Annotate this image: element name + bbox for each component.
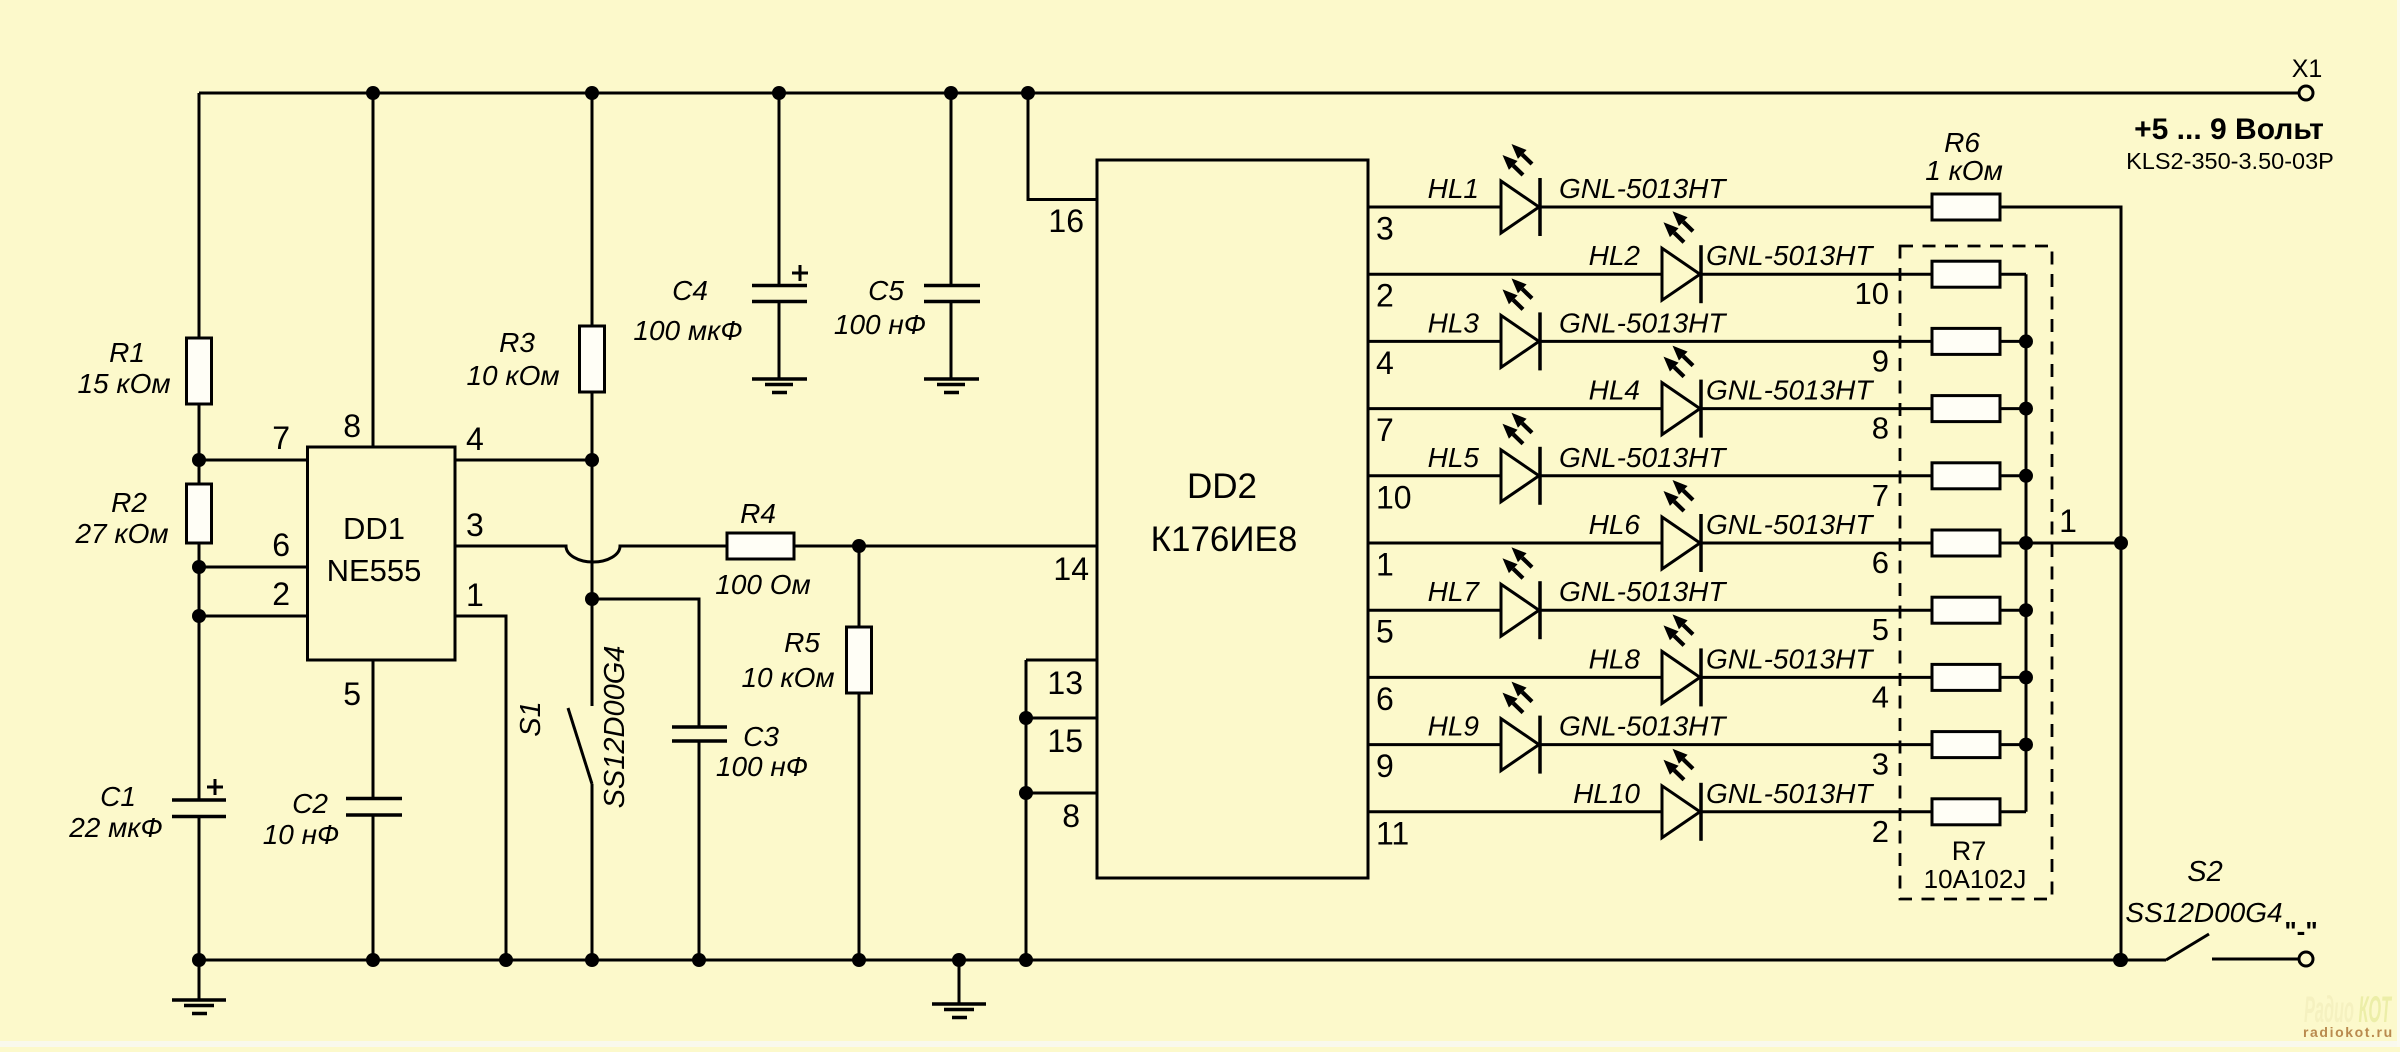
wire R7 element 7 to common xyxy=(2000,676,2026,679)
svg-text:9: 9 xyxy=(1376,748,1394,784)
resistor R7 element 5 xyxy=(1932,530,2000,556)
wire R7 element 9 to common xyxy=(2000,810,2026,813)
wire R5 to bottom bus xyxy=(858,693,861,960)
wire HL1 cathode to resistor xyxy=(1540,206,1932,209)
wire DD1 pin8 to top bus xyxy=(372,93,375,447)
svg-text:S2: S2 xyxy=(2187,856,2222,888)
ground symbol bottom-left xyxy=(198,960,201,1000)
wire DD2 pin13 xyxy=(1026,659,1097,662)
svg-text:DD1: DD1 xyxy=(343,511,405,546)
wire R7 element 6 to common xyxy=(2000,609,2026,612)
wire DD2 pin16 to top bus xyxy=(1028,93,1097,200)
wire C3 to bottom bus xyxy=(698,741,701,960)
wire C5 to ground xyxy=(950,302,953,380)
resistor R2 xyxy=(187,484,212,543)
wire R2 to C1 xyxy=(198,543,201,800)
resistor R7 element 3 xyxy=(1932,396,2000,422)
node R5 ground junction xyxy=(852,953,866,967)
svg-text:10: 10 xyxy=(1376,479,1412,515)
terminal X1 minus xyxy=(2299,952,2313,966)
wire DD2 pin 3 to HL1 xyxy=(1368,206,1501,209)
svg-text:100 Ом: 100 Ом xyxy=(715,569,810,600)
svg-text:2: 2 xyxy=(1872,814,1889,849)
node R3 top bus junction xyxy=(585,86,599,100)
wire DD1 pin7 xyxy=(199,459,308,462)
wire DD1 pin2 xyxy=(199,615,308,618)
svg-text:10 кОм: 10 кОм xyxy=(741,662,834,693)
svg-text:GNL-5013HT: GNL-5013HT xyxy=(1559,307,1727,338)
svg-text:GNL-5013HT: GNL-5013HT xyxy=(1706,643,1874,674)
svg-text:HL3: HL3 xyxy=(1428,307,1480,338)
svg-text:KLS2-350-3.50-03P: KLS2-350-3.50-03P xyxy=(2126,148,2334,174)
capacitor C2 plates xyxy=(346,797,402,801)
svg-text:HL7: HL7 xyxy=(1428,576,1481,607)
wire R1 to R2 xyxy=(198,404,201,484)
node S2 junction xyxy=(2113,953,2127,967)
node pin7 junction xyxy=(192,453,206,467)
node pin15 junction xyxy=(1019,711,1033,725)
node pin1 ground junction xyxy=(499,953,513,967)
wire R7 element 1 to common xyxy=(2000,273,2026,276)
svg-text:15: 15 xyxy=(1047,723,1083,759)
node pin16 top bus junction xyxy=(1021,86,1035,100)
node R7 common junction row 4 xyxy=(2019,402,2033,416)
resistor R7 element 1 xyxy=(1932,261,2000,287)
wire DD1 pin5 down xyxy=(372,660,375,799)
wire HL2 cathode to resistor xyxy=(1701,273,1932,276)
wire C2 to bottom bus xyxy=(372,815,375,960)
wire DD1 pin4 xyxy=(455,459,592,462)
switch S1 blade xyxy=(568,708,592,784)
node R7 common junction row 7 xyxy=(2019,603,2033,617)
right edge strip xyxy=(2397,0,2400,1047)
svg-text:16: 16 xyxy=(1048,203,1084,239)
svg-text:1: 1 xyxy=(1376,547,1394,583)
svg-text:8: 8 xyxy=(343,408,361,444)
node C3 ground junction xyxy=(692,953,706,967)
svg-text:HL4: HL4 xyxy=(1589,375,1640,406)
wire C4 to ground xyxy=(778,302,781,380)
wire R6 to right rail xyxy=(2000,207,2121,960)
svg-text:2: 2 xyxy=(272,576,290,612)
capacitor C4 plates xyxy=(752,284,807,288)
wire DD2 pin 5 to HL7 xyxy=(1368,609,1501,612)
svg-text:4: 4 xyxy=(1376,345,1394,381)
svg-text:"-": "-" xyxy=(2284,916,2317,946)
svg-text:R2: R2 xyxy=(111,487,147,518)
node R4/R5 junction xyxy=(852,539,866,553)
wire HL8 cathode to resistor xyxy=(1701,676,1932,679)
svg-text:3: 3 xyxy=(466,507,484,543)
svg-text:5: 5 xyxy=(343,676,361,712)
node R7 pin1 rail junction xyxy=(2114,536,2128,550)
svg-text:GNL-5013HT: GNL-5013HT xyxy=(1706,240,1874,271)
wire DD1 pin6 xyxy=(199,566,308,569)
svg-text:SS12D00G4: SS12D00G4 xyxy=(2125,897,2282,928)
wire pins 13-15-8 to bottom bus xyxy=(1025,660,1028,960)
svg-text:HL5: HL5 xyxy=(1428,442,1480,473)
LED HL9 xyxy=(1501,719,1539,771)
svg-text:R6: R6 xyxy=(1944,127,1980,158)
svg-text:6: 6 xyxy=(1376,681,1394,717)
svg-text:R3: R3 xyxy=(499,327,535,358)
svg-text:R7: R7 xyxy=(1952,836,1987,866)
svg-text:S1: S1 xyxy=(515,701,547,736)
wire DD2 pin 11 to HL10 xyxy=(1368,810,1662,813)
svg-text:100 нФ: 100 нФ xyxy=(716,751,808,782)
svg-text:10A102J: 10A102J xyxy=(1924,864,2027,894)
LED HL7 xyxy=(1501,584,1539,636)
svg-text:10: 10 xyxy=(1855,276,1889,311)
wire R3 to S1 node xyxy=(591,392,594,599)
LED HL6 xyxy=(1662,517,1700,569)
svg-text:10 кОм: 10 кОм xyxy=(466,360,559,391)
resistor R6 xyxy=(1932,194,2000,220)
wire DD2 pin 2 to HL2 xyxy=(1368,273,1662,276)
node C2 ground junction xyxy=(366,953,380,967)
svg-text:5: 5 xyxy=(1872,612,1889,647)
svg-text:C1: C1 xyxy=(100,781,136,812)
wire DD2 pin 1 to HL6 xyxy=(1368,542,1662,545)
svg-text:GNL-5013HT: GNL-5013HT xyxy=(1559,711,1727,742)
node C1 ground junction xyxy=(192,953,206,967)
svg-text:15 кОм: 15 кОм xyxy=(77,368,170,399)
ground symbol under C5 xyxy=(924,377,979,381)
svg-text:27 кОм: 27 кОм xyxy=(74,518,168,549)
svg-text:X1: X1 xyxy=(2292,55,2323,83)
svg-text:9: 9 xyxy=(1872,343,1889,378)
svg-text:HL6: HL6 xyxy=(1589,509,1641,540)
svg-text:+5 ... 9 Вольт: +5 ... 9 Вольт xyxy=(2134,113,2324,146)
svg-text:8: 8 xyxy=(1872,411,1889,446)
wire R5 top lead xyxy=(858,546,861,627)
node C4 top bus junction xyxy=(772,86,786,100)
resistor R7 element 2 xyxy=(1932,328,2000,354)
wire HL7 cathode to resistor xyxy=(1540,609,1932,612)
node mid ground junction xyxy=(952,953,966,967)
svg-text:R5: R5 xyxy=(784,627,820,658)
resistor R7 element 4 xyxy=(1932,463,2000,489)
wire HL3 cathode to resistor xyxy=(1540,340,1932,343)
wire C1 to bottom bus xyxy=(198,817,201,961)
LED HL4 xyxy=(1662,383,1700,435)
resistor R7 element 9 xyxy=(1932,799,2000,825)
node S1 ground junction xyxy=(585,953,599,967)
wire HL9 cathode to resistor xyxy=(1540,743,1932,746)
wire DD2 pin 6 to HL8 xyxy=(1368,676,1662,679)
wire HL10 cathode to resistor xyxy=(1701,810,1932,813)
svg-text:SS12D00G4: SS12D00G4 xyxy=(599,646,631,809)
LED HL10 xyxy=(1662,786,1700,838)
resistor R3 xyxy=(580,326,605,392)
label C1 polarity + xyxy=(207,786,223,789)
wire C4 from top bus xyxy=(778,93,781,286)
svg-text:1: 1 xyxy=(466,577,484,613)
node S1/C3 junction xyxy=(585,592,599,606)
node R7 common junction row 6 xyxy=(2019,536,2033,550)
wire HL4 cathode to resistor xyxy=(1701,407,1932,410)
svg-text:2: 2 xyxy=(1376,278,1394,314)
wire R7 element 4 to common xyxy=(2000,474,2026,477)
node pin6 junction xyxy=(192,560,206,574)
counter DD2 box xyxy=(1097,160,1368,878)
svg-text:GNL-5013HT: GNL-5013HT xyxy=(1706,509,1874,540)
wire R3 from top bus xyxy=(591,93,594,326)
svg-text:8: 8 xyxy=(1062,798,1080,834)
svg-text:C4: C4 xyxy=(672,275,708,306)
node R7 common junction row 3 xyxy=(2019,334,2033,348)
node pin8 junction xyxy=(1019,786,1033,800)
svg-text:5: 5 xyxy=(1376,614,1394,650)
wire left rail segment (top bus to R1) xyxy=(198,93,201,338)
capacitor C1 plates xyxy=(172,798,226,802)
label C4 polarity + xyxy=(792,272,808,275)
wire DD2 pin 10 to HL5 xyxy=(1368,474,1501,477)
LED HL8 xyxy=(1662,651,1700,703)
resistor R1 xyxy=(187,338,212,404)
node R7 common junction row 8 xyxy=(2019,670,2033,684)
wire +V top bus xyxy=(199,92,2299,95)
wire DD2 pin8 xyxy=(1026,792,1097,795)
node R7 common junction row 5 xyxy=(2019,469,2033,483)
node DD2 ground junction xyxy=(1019,953,1033,967)
resistor R7 element 7 xyxy=(1932,664,2000,690)
svg-text:22 мкФ: 22 мкФ xyxy=(68,812,163,843)
svg-text:R4: R4 xyxy=(740,498,776,529)
capacitor C5 plates xyxy=(924,284,980,288)
svg-text:HL1: HL1 xyxy=(1428,173,1479,204)
switch S1 bottom lead xyxy=(591,784,594,960)
wire R7 element 8 to common xyxy=(2000,743,2026,746)
resistor network R7 dashed outline xyxy=(1900,246,2052,899)
svg-text:GNL-5013HT: GNL-5013HT xyxy=(1706,375,1874,406)
svg-text:К176ИЕ8: К176ИЕ8 xyxy=(1151,520,1298,559)
svg-text:radiokot.ru: radiokot.ru xyxy=(2303,1024,2394,1040)
resistor R7 element 8 xyxy=(1932,732,2000,758)
svg-text:HL9: HL9 xyxy=(1428,711,1479,742)
wire S1 node to C3 xyxy=(592,599,699,727)
svg-text:10 нФ: 10 нФ xyxy=(263,819,340,850)
svg-text:C5: C5 xyxy=(868,275,904,306)
wire HL6 cathode to resistor xyxy=(1701,542,1932,545)
wire DD1 pin3 with hop over R3 line xyxy=(455,546,727,562)
resistor R7 element 6 xyxy=(1932,597,2000,623)
svg-text:7: 7 xyxy=(272,420,290,456)
op-amp/timer DD1 box xyxy=(308,447,456,660)
node pin8 top bus junction xyxy=(366,86,380,100)
svg-text:100 нФ: 100 нФ xyxy=(834,309,926,340)
wire R7 pin1 to right rail xyxy=(2026,542,2121,545)
svg-text:GNL-5013HT: GNL-5013HT xyxy=(1706,778,1874,809)
node R7 common junction row 9 xyxy=(2019,738,2033,752)
LED HL3 xyxy=(1501,315,1539,367)
wire C5 from top bus xyxy=(950,93,953,286)
LED HL2 xyxy=(1662,248,1700,300)
resistor R4 xyxy=(727,533,794,559)
svg-text:HL2: HL2 xyxy=(1589,240,1641,271)
svg-text:1: 1 xyxy=(2059,503,2077,539)
svg-text:GNL-5013HT: GNL-5013HT xyxy=(1559,576,1727,607)
svg-text:3: 3 xyxy=(1872,747,1889,782)
wire DD2 pin15 xyxy=(1026,717,1097,720)
svg-text:11: 11 xyxy=(1376,815,1409,851)
node C5 top bus junction xyxy=(944,86,958,100)
svg-text:4: 4 xyxy=(1872,679,1889,714)
wire DD2 pin 4 to HL3 xyxy=(1368,340,1501,343)
bottom edge strip xyxy=(0,1041,2400,1047)
svg-text:R1: R1 xyxy=(109,337,145,368)
capacitor C3 plates xyxy=(672,725,727,729)
svg-text:HL8: HL8 xyxy=(1589,643,1641,674)
svg-text:GNL-5013HT: GNL-5013HT xyxy=(1559,442,1727,473)
terminal X1 plus xyxy=(2299,86,2313,100)
switch S1 top lead xyxy=(591,599,594,706)
wire HL5 cathode to resistor xyxy=(1540,474,1932,477)
svg-text:6: 6 xyxy=(1872,545,1889,580)
svg-text:HL10: HL10 xyxy=(1573,778,1640,809)
svg-text:4: 4 xyxy=(466,421,484,457)
wire R7 element 5 to common xyxy=(2000,542,2026,545)
svg-text:100 мкФ: 100 мкФ xyxy=(633,315,742,346)
svg-text:3: 3 xyxy=(1376,211,1394,247)
svg-text:C2: C2 xyxy=(292,788,328,819)
LED HL1 xyxy=(1501,181,1539,233)
wire R7 element 2 to common xyxy=(2000,340,2026,343)
switch S2 blade xyxy=(2166,934,2209,960)
node right rail ground junction xyxy=(2114,953,2128,967)
svg-text:7: 7 xyxy=(1376,412,1394,448)
wire DD1 pin1 xyxy=(455,616,506,960)
LED HL5 xyxy=(1501,450,1539,502)
wire R4 to DD2 pin14 xyxy=(794,545,1097,548)
wire DD2 pin 9 to HL9 xyxy=(1368,743,1501,746)
svg-text:14: 14 xyxy=(1053,551,1089,587)
wire R7 common bus xyxy=(2025,274,2028,812)
svg-text:C3: C3 xyxy=(743,721,779,752)
svg-text:1 кОм: 1 кОм xyxy=(1925,155,2003,186)
node pin4/R3 junction xyxy=(585,453,599,467)
svg-text:GNL-5013HT: GNL-5013HT xyxy=(1559,173,1727,204)
switch S2 fixed lead xyxy=(2212,958,2299,961)
svg-text:7: 7 xyxy=(1872,478,1889,513)
wire ground bottom bus xyxy=(199,959,2166,962)
wire DD2 pin 7 to HL4 xyxy=(1368,407,1662,410)
wire R7 element 3 to common xyxy=(2000,407,2026,410)
node pin2 junction xyxy=(192,609,206,623)
svg-text:NE555: NE555 xyxy=(327,553,422,588)
svg-text:13: 13 xyxy=(1047,665,1083,701)
svg-text:6: 6 xyxy=(272,527,290,563)
svg-text:DD2: DD2 xyxy=(1187,467,1257,506)
ground symbol under C4 xyxy=(752,377,807,381)
resistor R5 xyxy=(847,627,872,693)
ground symbol bottom-middle xyxy=(958,960,961,1004)
